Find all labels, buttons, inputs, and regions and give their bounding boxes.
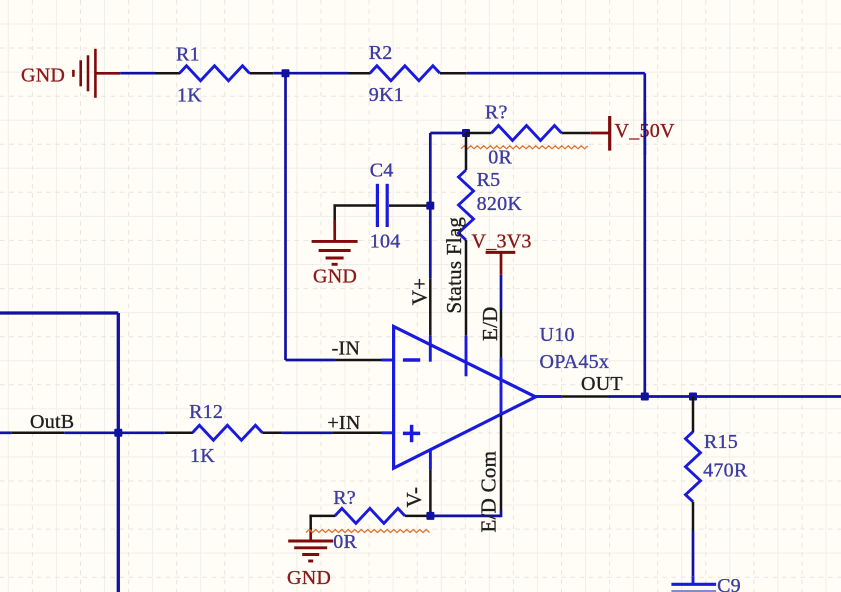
svg-text:+IN: +IN xyxy=(327,412,360,434)
wire R1 to node A xyxy=(273,72,348,75)
svg-text:GND: GND xyxy=(313,265,357,287)
capacitor C4 xyxy=(370,160,401,253)
resistor R5 xyxy=(459,169,523,240)
svg-text:R15: R15 xyxy=(704,431,738,453)
error squiggle under R? top xyxy=(461,146,588,149)
pin R15.1 xyxy=(692,397,695,433)
resistor R12 xyxy=(189,401,262,467)
resistor R1 xyxy=(176,44,250,107)
wire V+ vertical xyxy=(429,133,432,278)
stub +IN xyxy=(382,431,395,434)
pin C9.1 xyxy=(692,576,695,584)
power GND below C4 xyxy=(312,220,358,287)
pin E/D Com xyxy=(477,415,502,533)
svg-text:C4: C4 xyxy=(370,160,394,182)
stub E/D through body xyxy=(500,358,503,415)
pin R5.2 / Status Flag pin xyxy=(465,240,468,336)
net label OutB xyxy=(30,411,74,433)
power port V_3V3 xyxy=(472,231,532,275)
svg-text:OPA45x: OPA45x xyxy=(540,351,610,373)
pin R2.2 xyxy=(440,72,467,75)
power port V_50V xyxy=(590,116,675,151)
pin R1.1 xyxy=(156,72,181,75)
svg-text:1K: 1K xyxy=(177,85,202,107)
wire V- to E/D Com xyxy=(430,511,501,518)
junction node V- xyxy=(426,512,434,520)
sheet block edge xyxy=(0,313,118,592)
svg-text:V-: V- xyxy=(402,487,426,508)
svg-text:OutB: OutB xyxy=(30,411,74,433)
wire R12 to +IN xyxy=(282,431,333,434)
svg-text:E/D: E/D xyxy=(478,306,502,341)
op-amp U1 body xyxy=(394,324,610,468)
svg-text:0R: 0R xyxy=(488,147,512,169)
svg-text:V_3V3: V_3V3 xyxy=(472,231,532,253)
svg-text:0R: 0R xyxy=(333,531,357,553)
pin R12.2 xyxy=(262,432,282,435)
wire feedback crossing label xyxy=(643,112,646,155)
stub V- xyxy=(429,450,432,469)
svg-text:R2: R2 xyxy=(369,42,393,64)
stub Status Flag xyxy=(465,336,468,377)
svg-text:-IN: -IN xyxy=(332,338,361,360)
pin -IN xyxy=(332,338,382,361)
pin R15.2 xyxy=(692,502,695,531)
resistor R15 xyxy=(686,431,748,502)
resistor R2 xyxy=(369,42,440,106)
svg-text:V+: V+ xyxy=(407,278,431,306)
stub V+ xyxy=(429,336,432,362)
svg-text:GND: GND xyxy=(287,567,331,589)
resistor R? bottom xyxy=(333,487,405,553)
pin R5.1 xyxy=(465,133,468,170)
wire V+ node to R? node xyxy=(430,132,466,135)
junction OUT-R15 xyxy=(689,393,697,401)
junction node OutB xyxy=(114,429,122,437)
svg-text:U10: U10 xyxy=(540,324,575,346)
svg-text:R1: R1 xyxy=(176,44,200,66)
svg-text:E/D Com: E/D Com xyxy=(477,451,501,533)
junction node C4-V+ xyxy=(426,202,434,210)
svg-text:R12: R12 xyxy=(189,401,223,423)
power port GND top-left xyxy=(21,49,120,98)
pin R12.1 xyxy=(165,432,193,435)
wire to -IN pin xyxy=(286,359,335,362)
pin E/D xyxy=(478,306,502,357)
junction OUT-feedback xyxy=(641,393,649,401)
pin C4.2 xyxy=(389,204,427,207)
svg-text:1K: 1K xyxy=(190,445,215,467)
pin OutB source xyxy=(12,432,64,435)
svg-text:820K: 820K xyxy=(477,193,523,215)
pin R?top.1 xyxy=(466,132,492,135)
junction node B xyxy=(462,129,470,137)
wire V_3V3 to E/D xyxy=(500,275,503,310)
svg-text:Status Flag: Status Flag xyxy=(442,217,466,314)
svg-text:470R: 470R xyxy=(703,460,748,482)
svg-text:C9: C9 xyxy=(717,575,741,592)
wire GND corner to R? xyxy=(309,515,335,529)
power GND bottom xyxy=(287,528,333,589)
wire OutB to R12 xyxy=(64,431,165,434)
pin +IN xyxy=(327,412,381,434)
svg-text:R5: R5 xyxy=(477,169,501,191)
capacitor C9 xyxy=(671,575,741,592)
wire GND to R1 xyxy=(120,72,155,75)
wire node A down xyxy=(284,73,287,360)
svg-text:9K1: 9K1 xyxy=(369,84,404,106)
svg-text:R?: R? xyxy=(485,102,508,124)
pin R1.2 xyxy=(250,72,274,75)
resistor R? top xyxy=(485,102,562,169)
wire feedback vertical xyxy=(643,73,646,396)
pin V+ xyxy=(407,278,431,336)
junction node A xyxy=(282,69,290,77)
svg-text:R?: R? xyxy=(333,487,356,509)
pin V- xyxy=(402,469,430,516)
pin R?bot.2 xyxy=(405,515,431,518)
pin R?top.2 xyxy=(562,132,591,135)
wire OutB left xyxy=(0,431,12,434)
wire R15 to C9 xyxy=(692,531,695,576)
pin R2.1 xyxy=(349,72,371,75)
error squiggle under R? bottom xyxy=(306,530,430,533)
wire C4 left xyxy=(335,204,376,220)
stub -IN xyxy=(382,359,395,362)
label Status Flag xyxy=(442,217,466,314)
svg-text:OUT: OUT xyxy=(581,373,623,395)
pin OUT xyxy=(561,373,622,397)
wire R2 to feedback corner xyxy=(467,72,645,75)
wire OUT right xyxy=(609,395,841,398)
stub OUT xyxy=(535,395,561,398)
svg-text:104: 104 xyxy=(370,230,401,252)
svg-text:GND: GND xyxy=(21,64,65,86)
